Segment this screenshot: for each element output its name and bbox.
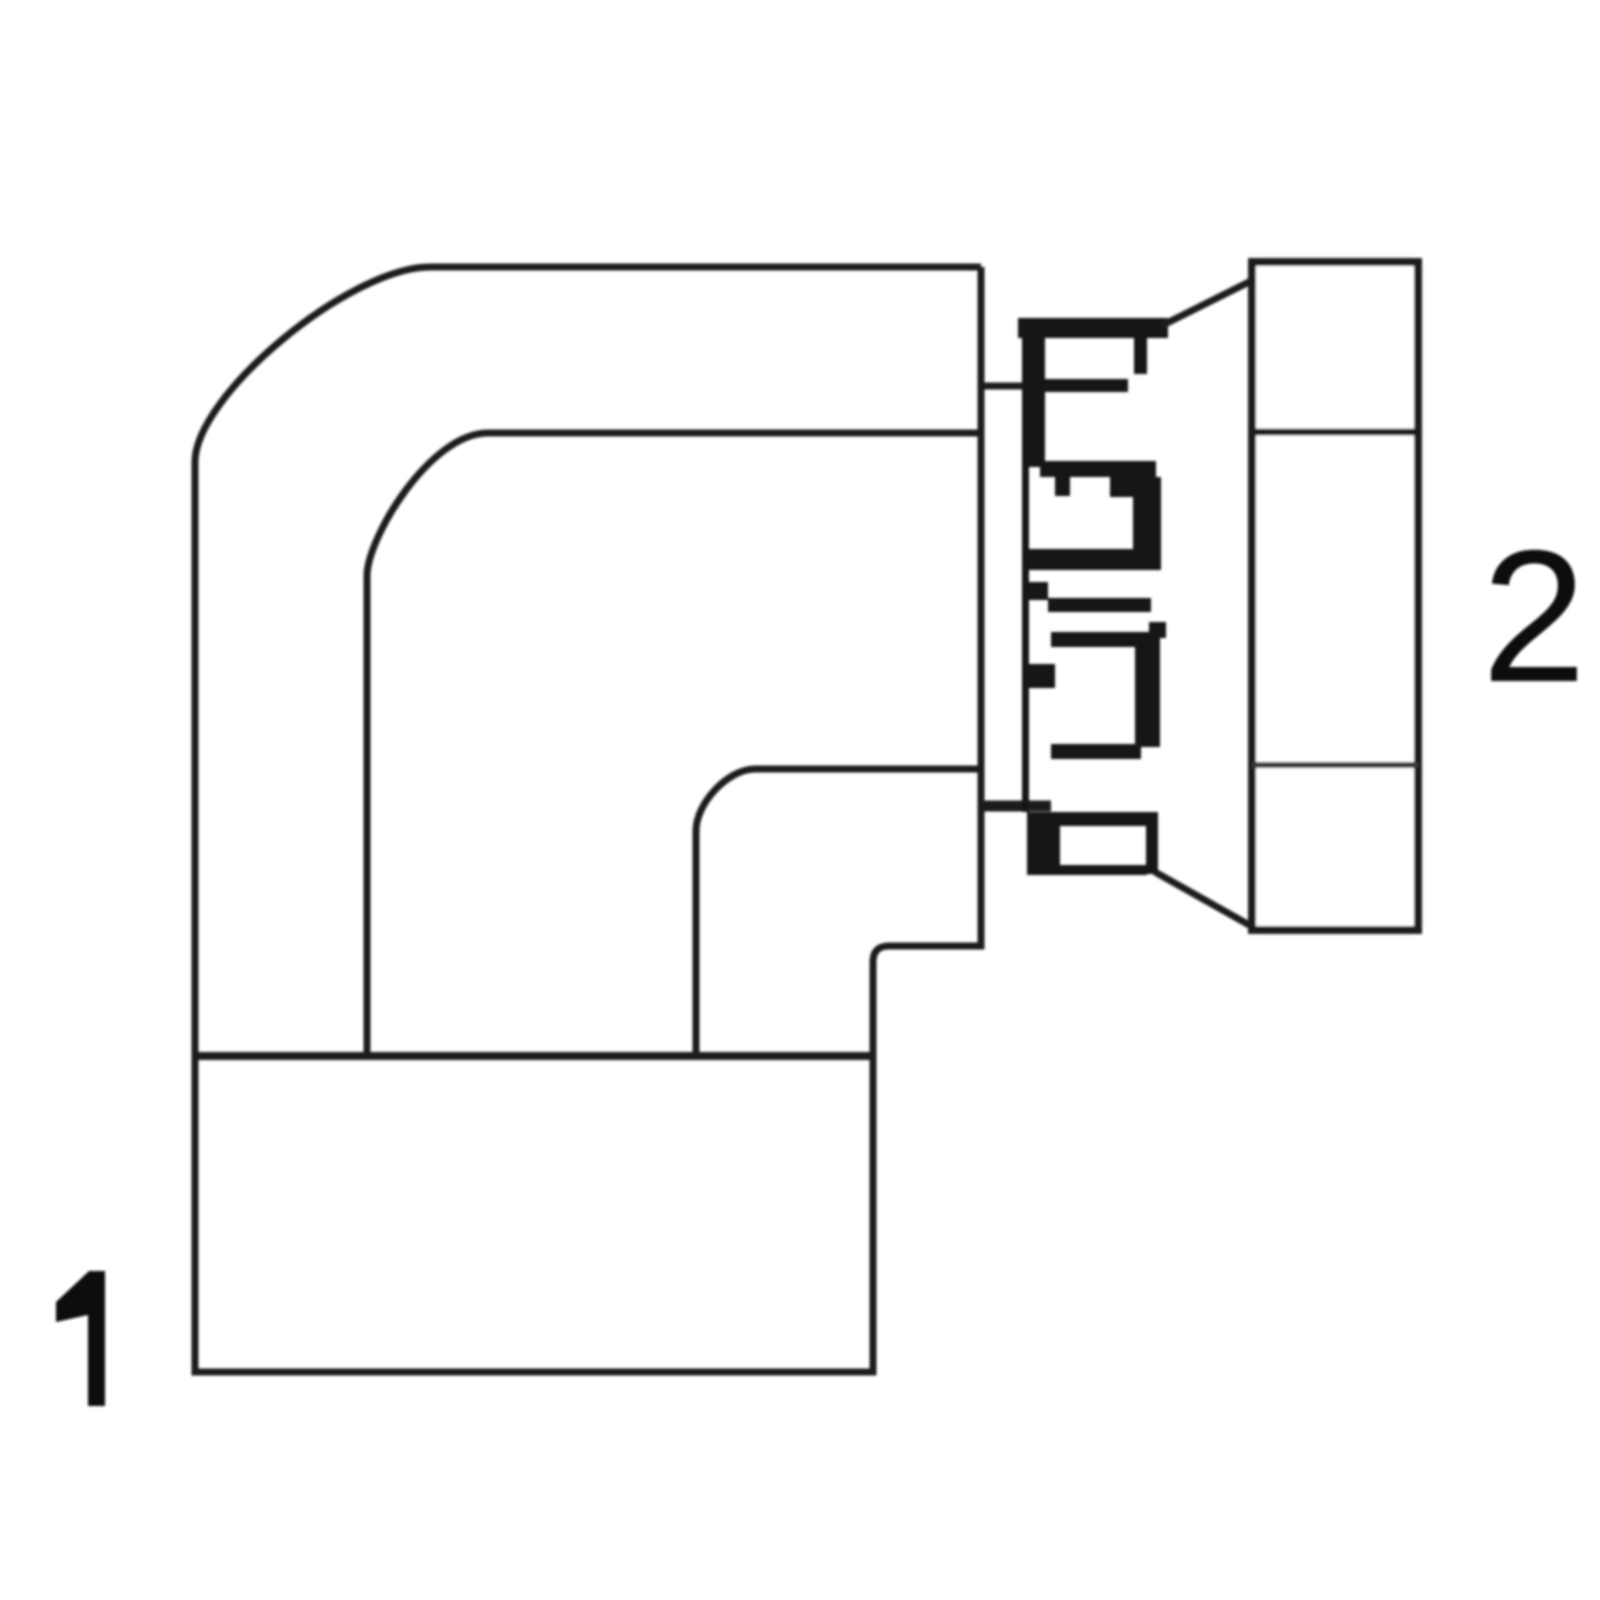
bottom bracket left block [1027,812,1060,875]
ring2 bottom bar [1051,744,1141,759]
thread top right drop [1134,338,1147,374]
ring1 right block [1110,477,1156,497]
swivel nut body [1252,262,1418,930]
ring1 bottom bar [1025,549,1157,570]
elbow body outer outline [195,267,981,1372]
thread top left column [1022,318,1045,467]
bottom bracket top bar [1027,812,1158,826]
tube top line [980,383,1045,390]
cone top diagonal [1161,281,1251,326]
bottom bracket bottom bar [1060,865,1147,875]
nut lower divider [1252,762,1418,768]
tube bottom line [980,801,1051,812]
bottom bracket right wall [1146,812,1158,874]
ring1 right wall [1133,477,1161,570]
thread top bar [1018,318,1168,338]
ring2 top bar [1051,632,1149,647]
thread root line [1022,318,1029,812]
ring2 right tooth [1149,622,1166,638]
inner contour line 3 [696,769,978,1056]
nut upper divider [1252,429,1418,436]
hex shoulder line [195,1052,873,1060]
svg-text:2: 2 [1482,511,1587,721]
ring1 top bar [1040,461,1156,477]
thread mid bar [1045,379,1128,392]
inner contour line 2 [367,433,978,1056]
thread bar between rings [1048,598,1151,612]
thread nub 2 [1025,664,1055,688]
ring2 right wall [1135,632,1160,747]
thread nub 1 [1025,582,1048,600]
ring1 tab [1055,477,1070,496]
cone bottom diagonal [1155,872,1251,926]
port label 1 [56,1271,105,1406]
